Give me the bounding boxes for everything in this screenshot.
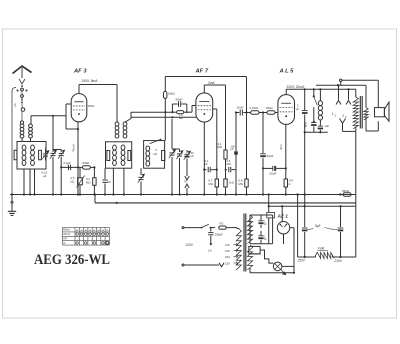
wire psu left xyxy=(268,195,270,213)
filament winding box xyxy=(249,246,260,254)
capacitor 1uF xyxy=(318,125,323,127)
coil L3a xyxy=(115,122,119,126)
transformer T1 secondary LT xyxy=(247,245,252,270)
heater wire xyxy=(249,250,274,263)
mains transformer T1 primary xyxy=(236,229,241,270)
resistor psu xyxy=(267,212,275,218)
trimmer C2 xyxy=(52,116,54,152)
transformer T1 core xyxy=(243,214,245,272)
pilot lamp xyxy=(273,262,282,271)
svg-text:75mA: 75mA xyxy=(72,144,76,152)
resistor 75k anode load xyxy=(172,111,176,113)
wire sec top xyxy=(316,84,366,86)
capacitor 0.1uF xyxy=(67,165,69,171)
wire xyxy=(259,112,267,114)
trimmer C3 xyxy=(60,150,62,153)
mains line bottom xyxy=(184,264,219,266)
speaker plug b xyxy=(348,89,350,99)
transformer T1 secondary HT xyxy=(247,215,252,243)
svg-text:220: 220 xyxy=(225,261,230,265)
antenna plug xyxy=(19,79,25,84)
svg-text:AF3 Ia: AF3 Ia xyxy=(63,233,70,236)
resistor R2 xyxy=(39,150,42,160)
svg-text:0,1MΩ: 0,1MΩ xyxy=(250,106,258,110)
capacitor 10nF xyxy=(236,112,239,114)
coil L4b xyxy=(121,145,125,150)
svg-text:250pF: 250pF xyxy=(215,233,223,237)
tank circuit box 3 xyxy=(144,141,165,169)
capacitor 0.1uF k xyxy=(204,169,206,171)
switch S2 xyxy=(150,140,160,144)
coil choke xyxy=(319,89,321,101)
plug c xyxy=(340,119,346,124)
tap plug xyxy=(219,263,224,267)
svg-text:LA: LA xyxy=(13,103,17,107)
wire cathode U2 xyxy=(203,122,205,195)
ground bus 2 xyxy=(95,202,356,204)
wire B+ rail xyxy=(165,76,246,78)
coil L5 xyxy=(146,146,150,151)
wave switch S1 xyxy=(21,88,24,91)
svg-text:pF: pF xyxy=(231,147,234,151)
output transformer T2 secondary xyxy=(364,108,368,120)
svg-text:TA: TA xyxy=(184,180,187,184)
wire anode U1 xyxy=(78,85,80,94)
svg-text:MΩ: MΩ xyxy=(179,116,183,120)
capacitor 1nF a xyxy=(260,215,262,220)
svg-text:50kΩ: 50kΩ xyxy=(83,161,91,165)
svg-text:50: 50 xyxy=(108,180,112,184)
wire A anode line xyxy=(131,111,172,113)
svg-text:MΩ: MΩ xyxy=(218,145,222,149)
svg-text:1kΩ: 1kΩ xyxy=(229,181,234,185)
coil L2b xyxy=(31,145,35,150)
resistor 5k xyxy=(162,151,165,161)
capacitor 50pF loop xyxy=(171,104,173,112)
wire az1 out xyxy=(290,227,294,229)
output transformer core xyxy=(359,96,361,129)
svg-text:20µF: 20µF xyxy=(270,172,277,176)
wire B grid line xyxy=(131,116,196,118)
svg-text:kΩ: kΩ xyxy=(154,152,158,156)
psu rail 3 xyxy=(355,195,357,207)
ground bus 1 xyxy=(10,194,356,196)
resistor 0.1M g xyxy=(247,112,251,114)
resistor 50k xyxy=(78,166,82,168)
wire screen feed xyxy=(164,77,166,92)
resistor 170 xyxy=(284,179,287,187)
svg-text:165V: 165V xyxy=(88,104,95,108)
svg-text:2mA: 2mA xyxy=(208,81,215,85)
wire switch feed xyxy=(340,82,342,86)
resistor R1 xyxy=(14,150,17,160)
resistor 65k xyxy=(343,193,351,196)
resistor 0.8M xyxy=(246,113,248,179)
resistor 0.7M xyxy=(215,179,218,187)
capacitor 20uF s xyxy=(311,122,316,124)
tank circuit box xyxy=(17,142,46,170)
wire feed drop xyxy=(246,77,248,113)
svg-text:AEG 326-WL: AEG 326-WL xyxy=(34,252,110,268)
fuse FS xyxy=(219,226,226,229)
resistor 0.2M xyxy=(93,167,95,178)
svg-text:AF 7: AF 7 xyxy=(195,69,209,75)
svg-text:220V: 220V xyxy=(185,243,194,247)
tube U2 AF7 xyxy=(196,93,213,122)
capacitor C5 xyxy=(104,168,106,179)
svg-text:8µF: 8µF xyxy=(315,224,321,228)
svg-text:FS: FS xyxy=(220,222,224,226)
svg-text:110: 110 xyxy=(225,243,230,247)
capacitor 50uF xyxy=(262,113,264,154)
capacitor 8uF b xyxy=(304,195,306,228)
svg-text:µF: µF xyxy=(43,174,47,178)
wire xyxy=(61,166,78,168)
svg-text:125: 125 xyxy=(225,249,230,253)
coil L2a xyxy=(22,145,26,150)
trimmer C7 xyxy=(140,168,142,175)
speaker plug a xyxy=(338,85,340,100)
svg-text:pF: pF xyxy=(191,154,195,158)
coil L3b xyxy=(123,122,127,126)
wire cathode U3 xyxy=(285,124,287,178)
svg-text:nF: nF xyxy=(264,223,267,226)
svg-text:kΩ: kΩ xyxy=(71,179,75,183)
wire sec ht leads xyxy=(237,228,239,230)
svg-text:65kΩ: 65kΩ xyxy=(342,189,350,193)
svg-text:220V, 20mA: 220V, 20mA xyxy=(287,85,306,89)
pickup jack xyxy=(185,176,189,180)
svg-text:215V: 215V xyxy=(334,259,343,263)
svg-text:MΩ: MΩ xyxy=(239,182,243,186)
svg-text:Ω: Ω xyxy=(289,182,291,186)
antenna A xyxy=(13,66,32,74)
resistor R5 xyxy=(107,151,110,161)
svg-text:A L 5: A L 5 xyxy=(279,69,295,75)
tube U3 AL5 xyxy=(278,95,295,125)
wire to speaker xyxy=(342,79,378,81)
wire ground-branch xyxy=(12,88,16,195)
svg-text:Feld: Feld xyxy=(318,246,324,250)
output transformer T2 primary xyxy=(355,89,357,97)
wire OT primary bottom xyxy=(355,127,357,131)
tank circuit box 2 xyxy=(106,142,132,168)
capacitor 100pF xyxy=(235,113,237,152)
wire xyxy=(112,168,114,194)
wire xyxy=(21,138,23,142)
svg-text:50pF: 50pF xyxy=(176,98,183,102)
tube U1 AF3 xyxy=(71,94,87,122)
coil L4a xyxy=(113,145,117,150)
resistor R11 xyxy=(225,170,227,179)
bus junctions xyxy=(11,193,13,195)
capacitor 8uF c xyxy=(340,206,342,227)
svg-text:150: 150 xyxy=(225,255,230,259)
svg-text:MΩ: MΩ xyxy=(86,180,90,184)
svg-text:10nF: 10nF xyxy=(237,106,244,110)
capacitor 20uF xyxy=(263,167,273,169)
wire grid U1 xyxy=(31,115,66,117)
svg-text:µF: µF xyxy=(296,107,299,111)
node O1 xyxy=(340,79,342,81)
wire screen U2 xyxy=(213,108,217,110)
wire sec bottom xyxy=(365,119,367,132)
speaker LS xyxy=(375,108,385,117)
svg-text:43,4: 43,4 xyxy=(279,144,283,150)
mains switch xyxy=(202,224,209,227)
svg-text:1A: 1A xyxy=(208,249,212,253)
heater bottom rail xyxy=(249,268,251,273)
mains line top xyxy=(184,227,202,229)
switch contact xyxy=(21,99,23,101)
trimmer C11 xyxy=(186,150,188,153)
svg-text:MΩ: MΩ xyxy=(227,162,231,166)
wire anode U2 xyxy=(203,85,205,93)
wire xyxy=(305,131,328,133)
svg-text:MΩ: MΩ xyxy=(209,182,213,186)
svg-text:255V: 255V xyxy=(297,259,306,263)
svg-text:µF: µF xyxy=(205,162,209,166)
rectifier U4 AZ1 xyxy=(277,222,289,234)
HT winding loop xyxy=(250,214,273,216)
wire psu bottom rail xyxy=(298,256,316,258)
coil L1b xyxy=(29,124,33,128)
trimmer C1 xyxy=(45,150,47,153)
svg-text:20kΩ: 20kΩ xyxy=(266,106,273,110)
wire psu right edge xyxy=(355,206,357,257)
resistor 25k var xyxy=(79,167,81,177)
resistor R10 xyxy=(225,85,227,150)
svg-text:15kΩ: 15kΩ xyxy=(168,92,176,96)
switch S3 xyxy=(313,89,315,96)
svg-text:Röhre: Röhre xyxy=(63,229,70,232)
wire lamp arrow xyxy=(281,269,286,274)
capacitor mains xyxy=(210,228,212,232)
resistor 20k g xyxy=(267,111,275,114)
wire cathode U1 xyxy=(77,122,79,195)
svg-text:AF7: AF7 xyxy=(63,238,68,241)
wire xyxy=(23,169,25,195)
capacitor 0.5M xyxy=(226,169,228,171)
ground symbol xyxy=(11,195,13,202)
resistor R6 xyxy=(128,151,131,161)
hook U1 xyxy=(66,103,71,105)
capacitor 8uF a xyxy=(304,89,306,110)
coil L1a xyxy=(20,124,24,128)
svg-text:AF 3: AF 3 xyxy=(73,69,87,75)
svg-text:µF: µF xyxy=(304,124,308,128)
svg-text:0,1µF: 0,1µF xyxy=(64,161,72,165)
svg-text:nF: nF xyxy=(264,238,267,241)
wire xyxy=(125,112,131,122)
trimmer C9 xyxy=(171,119,173,149)
wire HT rail xyxy=(286,88,356,90)
voltage table xyxy=(63,226,110,228)
wire lamp out xyxy=(282,265,294,267)
svg-text:1µF: 1µF xyxy=(325,124,330,128)
capacitor 1nF b xyxy=(260,231,262,235)
trimmer C10 xyxy=(179,149,181,152)
wire anode U3 xyxy=(285,89,287,94)
svg-text:240V, 5mA: 240V, 5mA xyxy=(82,79,99,83)
svg-text:50µF: 50µF xyxy=(267,154,274,158)
